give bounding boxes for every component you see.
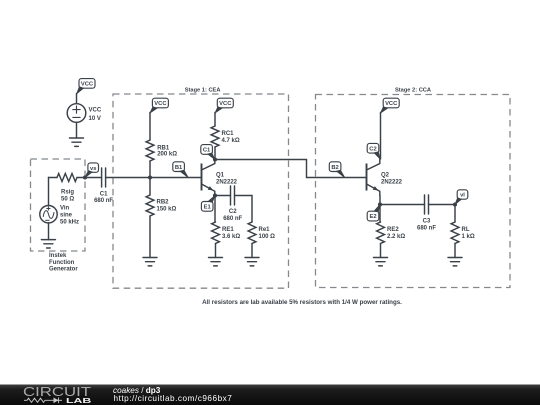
svg-text:VCC: VCC [219,101,232,107]
svg-text:4.7 kΩ: 4.7 kΩ [222,138,240,144]
svg-text:Rsig: Rsig [61,190,74,196]
svg-text:C2: C2 [369,146,376,152]
svg-text:VCC: VCC [81,82,94,88]
svg-text:vl: vl [460,193,465,199]
svg-text:VCC: VCC [154,101,167,107]
svg-text:680 nF: 680 nF [223,216,242,222]
svg-text:Vin: Vin [60,206,70,212]
svg-text:Function: Function [49,260,75,266]
svg-text:E2: E2 [369,214,376,220]
svg-text:1 kΩ: 1 kΩ [462,234,475,240]
svg-text:2N2222: 2N2222 [381,179,403,185]
svg-text:VCC: VCC [385,101,398,107]
svg-text:VCC: VCC [89,107,102,113]
svg-text:B1: B1 [175,165,183,171]
svg-text:10 V: 10 V [89,116,101,122]
svg-text:RE2: RE2 [387,227,399,233]
svg-text:sine: sine [60,213,73,219]
svg-text:2N2222: 2N2222 [216,179,238,185]
svg-text:100 Ω: 100 Ω [259,234,276,240]
svg-text:vs: vs [90,166,96,172]
svg-text:http://circuitlab.com/c966bx7: http://circuitlab.com/c966bx7 [114,394,233,403]
svg-text:RB1: RB1 [157,145,170,151]
svg-text:3.6 kΩ: 3.6 kΩ [222,234,240,240]
svg-text:E1: E1 [204,205,212,211]
svg-text:RB2: RB2 [157,200,170,206]
svg-text:150 kΩ: 150 kΩ [157,207,177,213]
svg-text:200 kΩ: 200 kΩ [157,152,177,158]
svg-text:RC1: RC1 [222,131,235,137]
svg-text:C1: C1 [100,191,108,197]
svg-text:Q2: Q2 [381,173,390,179]
svg-text:Q1: Q1 [216,173,225,179]
svg-text:All resistors are lab availabl: All resistors are lab available 5% resis… [202,299,402,306]
svg-text:RE1: RE1 [222,227,234,233]
svg-text:RL: RL [462,227,470,233]
svg-text:Generator: Generator [49,267,78,273]
svg-text:B2: B2 [331,165,338,171]
svg-text:C3: C3 [423,219,431,225]
svg-text:LAB: LAB [66,396,91,405]
svg-text:50 kHz: 50 kHz [60,220,79,226]
svg-text:Stage 1: CEA: Stage 1: CEA [185,87,221,93]
svg-text:680 nF: 680 nF [417,225,436,231]
svg-text:Instek: Instek [49,253,67,259]
svg-text:Re1: Re1 [259,227,271,233]
svg-text:C1: C1 [203,148,211,154]
svg-text:Stage 2: CCA: Stage 2: CCA [395,87,431,93]
svg-text:50 Ω: 50 Ω [61,197,74,203]
svg-text:680 nF: 680 nF [94,198,113,204]
svg-text:C2: C2 [229,209,237,215]
svg-text:2.2 kΩ: 2.2 kΩ [387,234,405,240]
